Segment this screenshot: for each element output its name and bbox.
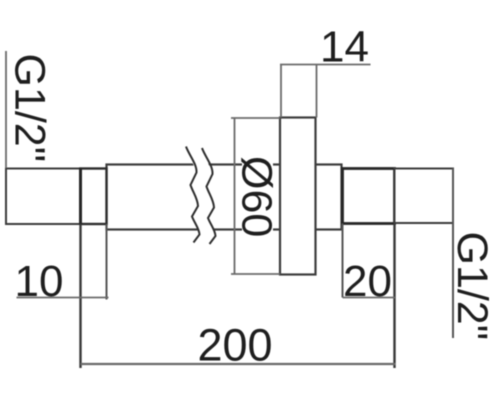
dim 20 line bbox=[343, 297, 396, 299]
left collar thick edge bbox=[79, 168, 82, 226]
dia 60 label halo bbox=[242, 157, 273, 238]
flange (escutcheon) bbox=[280, 118, 316, 275]
pipe body (center tube) bbox=[107, 165, 342, 230]
dim 14 extension line left bbox=[280, 65, 282, 118]
left thread section bbox=[6, 169, 81, 225]
dia 60 dimension line bbox=[234, 118, 236, 275]
svg-text:Ø60: Ø60 bbox=[233, 156, 281, 237]
right collar bbox=[343, 169, 395, 224]
right thread section bbox=[395, 169, 454, 224]
dim 14 line bbox=[280, 64, 371, 66]
left G1/2 dimension line bbox=[5, 51, 7, 168]
svg-text:200: 200 bbox=[197, 320, 272, 371]
left collar bbox=[81, 169, 107, 225]
dia 60 bottom connector bbox=[231, 273, 280, 275]
svg-text:10: 10 bbox=[15, 257, 64, 306]
break line right bbox=[202, 148, 216, 244]
dim 20 / 200 shared right extension line bbox=[393, 224, 395, 369]
dim 20 extension line left bbox=[342, 224, 344, 298]
svg-text:14: 14 bbox=[320, 23, 369, 72]
dim 10 extension line (collar left, down to 200 line) bbox=[79, 224, 81, 368]
svg-text:20: 20 bbox=[343, 257, 392, 306]
dia 60 top connector bbox=[231, 117, 280, 119]
break gap white-out bbox=[186, 147, 216, 245]
break line left bbox=[186, 147, 200, 243]
svg-text:G1/2": G1/2" bbox=[448, 232, 496, 341]
dim 14 extension line right bbox=[316, 65, 318, 118]
dim 10 line bbox=[17, 297, 109, 299]
right G1/2 dimension line bbox=[452, 168, 454, 338]
dim 10 extension line right bbox=[106, 224, 108, 300]
dim 200 line bbox=[81, 363, 396, 365]
svg-text:G1/2": G1/2" bbox=[6, 54, 54, 163]
